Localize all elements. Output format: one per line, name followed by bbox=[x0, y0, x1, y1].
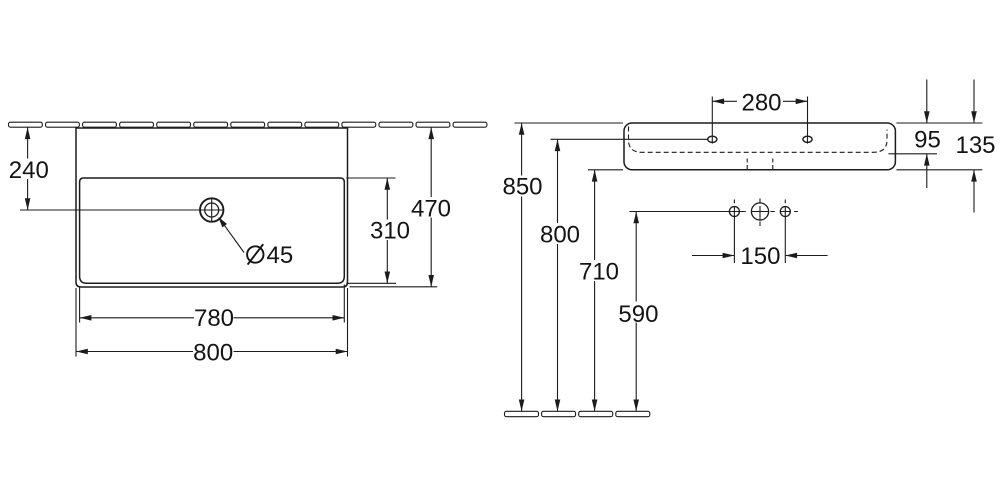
dimension 800 label (top view) bbox=[193, 342, 234, 362]
svg-text:780: 780 bbox=[194, 305, 234, 332]
dimension 135 upper arrow bbox=[971, 111, 977, 123]
svg-text:95: 95 bbox=[914, 127, 941, 154]
dimension 850 line bbox=[521, 123, 523, 411]
dimension 800 label (elevation) bbox=[539, 223, 582, 244]
dimension 135 lower arrow line bbox=[973, 170, 975, 213]
dimension 800 arrow right bbox=[336, 349, 348, 355]
dimension 150 arrow right-pointing bbox=[723, 253, 735, 259]
svg-text:240: 240 bbox=[9, 157, 49, 184]
extension line bowl top right bbox=[346, 177, 395, 179]
inner shelf reference line bbox=[889, 153, 938, 155]
reference line drain height bbox=[20, 209, 200, 211]
deck hole left bbox=[708, 136, 717, 142]
dimension 710 arrow up bbox=[592, 170, 598, 182]
dimension 590 line bbox=[635, 212, 637, 412]
svg-text:590: 590 bbox=[618, 301, 658, 328]
dimension 800 arrow down bbox=[555, 400, 561, 412]
dimension 150 arrow left-pointing bbox=[785, 253, 797, 259]
dimension 240 arrow up bbox=[25, 127, 31, 139]
dimension 470 line bbox=[430, 127, 432, 286]
dimension 800 arrow up bbox=[555, 139, 561, 151]
dimension 800 line (elevation) bbox=[557, 139, 559, 411]
dimension 470 arrow down bbox=[428, 275, 434, 287]
dimension 710 label bbox=[578, 260, 621, 281]
dimension 280 label bbox=[740, 92, 783, 113]
faucet hole right vertical line bbox=[784, 200, 786, 264]
svg-text:710: 710 bbox=[579, 259, 619, 286]
dimension 95 lower arrow bbox=[924, 154, 930, 166]
dimension 280 arrow right bbox=[796, 99, 808, 105]
dimension 310 label bbox=[370, 220, 411, 241]
dimension 280 line right bbox=[783, 100, 808, 102]
dimension 280 arrow left bbox=[712, 99, 724, 105]
dimension 280 line left bbox=[712, 100, 737, 102]
drain leader arrow bbox=[218, 217, 227, 228]
deck hole right bbox=[803, 136, 812, 142]
basin body (front elevation) bbox=[624, 123, 895, 170]
wall hatch tiles (top view) bbox=[9, 122, 487, 127]
dimension 590 arrow down bbox=[633, 400, 639, 412]
dimension 240 line bbox=[27, 127, 29, 210]
dimension 310 arrow down bbox=[385, 272, 391, 284]
dimension 590 label bbox=[617, 302, 660, 323]
extension lines below basin right bbox=[344, 285, 347, 357]
dimension 150 line right bbox=[785, 255, 827, 257]
dimension 470 label bbox=[411, 197, 452, 218]
dimension 780 arrow left bbox=[80, 315, 92, 321]
dimension 800 line (top view) bbox=[76, 351, 348, 353]
dimension 150 line left bbox=[692, 255, 734, 257]
dimension 470 arrow up bbox=[428, 127, 434, 139]
deck holes reference line bbox=[551, 138, 708, 140]
extension lines below basin left bbox=[76, 288, 80, 357]
basin bottom reference line bbox=[588, 169, 982, 171]
dimension 95 upper arrow bbox=[924, 111, 930, 123]
drain hole outer circle bbox=[200, 198, 223, 221]
faucet hole right bbox=[780, 207, 790, 217]
hidden bowl dashed line bbox=[629, 127, 888, 153]
svg-text:150: 150 bbox=[740, 243, 780, 270]
hidden drain dashes bbox=[747, 159, 773, 170]
dimension 710 arrow down bbox=[592, 400, 598, 412]
faucet hole centre line bbox=[630, 211, 798, 213]
faucet hole middle vertical line bbox=[759, 199, 761, 227]
floor hatch tiles bbox=[505, 411, 650, 416]
dimension 780 arrow right bbox=[333, 315, 345, 321]
dimension 590 arrow up bbox=[633, 212, 639, 224]
dimension 95 upper arrow line bbox=[926, 80, 928, 124]
svg-text:800: 800 bbox=[540, 222, 580, 249]
svg-text:280: 280 bbox=[741, 90, 781, 117]
dimension 240 label bbox=[8, 159, 49, 180]
svg-text:310: 310 bbox=[370, 218, 410, 245]
rim height reference line bbox=[515, 122, 983, 124]
extension line bowl bottom right bbox=[346, 282, 396, 284]
dimension 135 lower arrow bbox=[971, 170, 977, 182]
faucet hole left vertical line bbox=[733, 200, 735, 264]
inner bowl rim (top view) bbox=[80, 178, 345, 283]
svg-text:45: 45 bbox=[267, 242, 294, 269]
dimension 710 line bbox=[594, 170, 596, 411]
svg-text:800: 800 bbox=[193, 340, 233, 367]
faucet hole middle bbox=[751, 203, 768, 220]
dimension 850 arrow down bbox=[519, 400, 525, 412]
dimension 850 label bbox=[501, 176, 544, 197]
drain leader line bbox=[224, 224, 245, 252]
dimension 135 upper arrow line bbox=[973, 80, 975, 124]
extension line outer bottom right bbox=[350, 286, 438, 288]
dimension 95 lower arrow line bbox=[926, 154, 928, 188]
dimension 800 arrow left bbox=[76, 349, 88, 355]
dimension 240 arrow down bbox=[25, 198, 31, 210]
washbasin outer outline (top view) bbox=[76, 128, 348, 287]
dimension 310 arrow up bbox=[385, 178, 391, 190]
dimension 780 line bbox=[80, 317, 345, 319]
extension lines 280 bbox=[712, 97, 807, 144]
dimension 850 arrow up bbox=[519, 123, 525, 135]
svg-text:135: 135 bbox=[955, 132, 995, 159]
dimension 310 line bbox=[386, 178, 388, 283]
svg-text:850: 850 bbox=[502, 174, 542, 201]
svg-text:470: 470 bbox=[411, 195, 451, 222]
dimension 780 label bbox=[194, 308, 234, 328]
drain crosshair bbox=[200, 198, 224, 222]
faucet hole left bbox=[729, 207, 739, 217]
drain hole inner circle bbox=[205, 203, 219, 217]
diameter symbol of label bbox=[247, 244, 263, 264]
